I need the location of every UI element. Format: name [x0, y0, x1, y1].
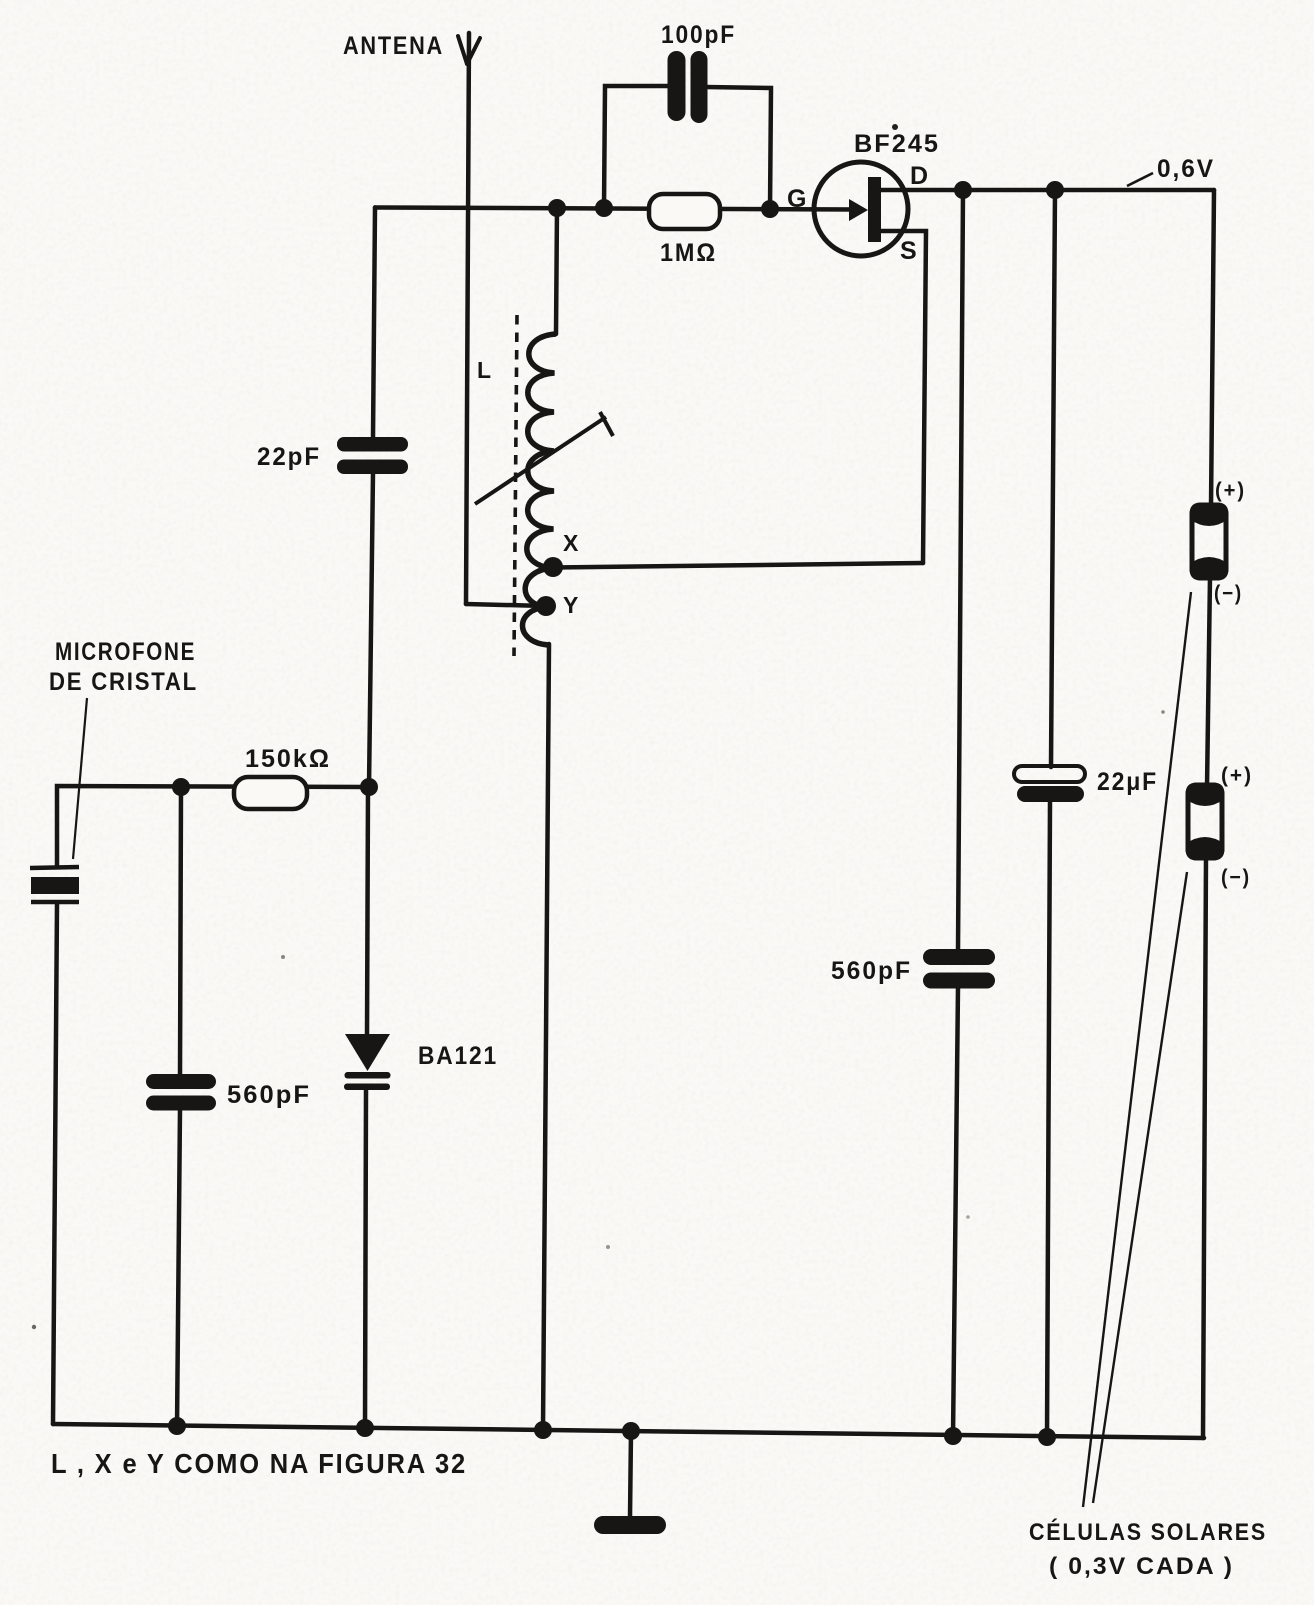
coil L winding [522, 334, 556, 645]
svg-text:DE CRISTAL: DE CRISTAL [49, 668, 198, 696]
svg-text:( 0,3V CADA ): ( 0,3V CADA ) [1049, 1553, 1234, 1580]
svg-text:560pF: 560pF [831, 957, 912, 985]
node: drain bus / 22uF rail [1046, 181, 1064, 199]
svg-text:0,6V: 0,6V [1157, 155, 1215, 183]
diode BA121 (varicap) [345, 1034, 390, 1071]
svg-text:560pF: 560pF [227, 1081, 311, 1109]
resistor 150kΩ [234, 777, 307, 809]
solar cells leader line 1 [1083, 592, 1191, 1507]
svg-text:L , X e Y COMO NA FIGURA 3: L , X e Y COMO NA FIGURA 32 [51, 1448, 467, 1479]
svg-text:L: L [477, 357, 493, 383]
node: gate / 100pF right [761, 200, 779, 218]
wire: antenna vertical [466, 33, 469, 604]
antenna symbol arrowhead [458, 36, 467, 64]
wire: 22uF rail [1051, 190, 1055, 767]
coil core dashed line [514, 315, 517, 656]
wire: source lead and right drop to X [879, 231, 926, 563]
node Y [536, 596, 556, 616]
capacitor 560pF right plates [923, 949, 995, 965]
node: bottom bus / 22uF rail [1038, 1428, 1056, 1446]
solar cell 1 body [1190, 503, 1229, 581]
wire: coil bottom lead [543, 644, 549, 1429]
transistor channel bar [868, 177, 881, 242]
0,6V leader slash [1127, 173, 1153, 186]
svg-text:D: D [910, 162, 930, 190]
node: mic bus / 150k right [360, 778, 378, 796]
wire: Y tap horizontal [466, 604, 546, 606]
node: bottom bus / coil lead [534, 1421, 552, 1439]
svg-text:S: S [900, 237, 919, 265]
node: 100pF left on gate bus [595, 199, 613, 217]
capacitor 22pF plates [337, 437, 408, 452]
variable (trimmer) arrow through coil [475, 417, 606, 504]
mic label leader line [73, 698, 87, 859]
wire: 560pF-left rail [180, 787, 181, 1076]
capacitor 560pF left plates [146, 1074, 216, 1089]
svg-text:MICROFONE: MICROFONE [55, 638, 196, 666]
node: coil tap on gate bus [548, 199, 566, 217]
svg-text:(−): (−) [1221, 866, 1251, 889]
svg-text:(+): (+) [1215, 479, 1246, 502]
svg-text:22pF: 22pF [257, 443, 321, 471]
node: bottom bus / BA121 [356, 1419, 374, 1437]
wire: left branch vertical (22pF / BA121) [373, 208, 375, 439]
wire: 100pF loop [604, 86, 668, 208]
node: bottom bus / 560pF right [944, 1427, 962, 1445]
svg-text:100pF: 100pF [661, 21, 736, 49]
microphone element (crystal mic) [30, 867, 79, 868]
ground symbol [594, 1516, 666, 1534]
svg-text:ANTENA: ANTENA [343, 32, 444, 60]
svg-text:Y: Y [563, 592, 580, 618]
svg-text:1MΩ: 1MΩ [660, 239, 717, 267]
node: mic bus / 560pF left [172, 778, 190, 796]
wire: mic branch [57, 786, 369, 866]
wire: X tap horizontal [553, 563, 923, 568]
svg-text:150kΩ: 150kΩ [245, 745, 331, 773]
wire: bottom bus [53, 1424, 1204, 1438]
svg-text:CÉLULAS SOLARES: CÉLULAS SOLARES [1029, 1518, 1267, 1546]
svg-text:22μF: 22μF [1097, 768, 1158, 796]
wire: 560pF-right rail [958, 190, 963, 951]
wire: drain bus y~190 [879, 188, 1214, 193]
resistor 1MΩ [649, 194, 720, 229]
transistor gate arrow [849, 199, 868, 221]
solar cell 2 body [1186, 783, 1225, 861]
svg-text:(+): (+) [1221, 764, 1253, 787]
capacitor 100pF plates [668, 51, 686, 121]
capacitor 22uF electrolytic plates [1014, 766, 1085, 782]
svg-text:G: G [787, 185, 808, 213]
node: bottom bus / ground stub [622, 1422, 640, 1440]
svg-text:(−): (−) [1214, 582, 1243, 605]
solar cells leader line 2 [1093, 872, 1187, 1503]
transistor Q1 BF245 circle [814, 162, 908, 256]
wire: ground stub [630, 1431, 631, 1517]
wire: main gate bus y~208 [375, 208, 856, 210]
node X [543, 557, 563, 577]
node: drain bus / 560pF rail [954, 181, 972, 199]
svg-text:X: X [563, 530, 580, 556]
wire: coil top lead [556, 208, 557, 334]
scan specks [32, 124, 1165, 1329]
svg-text:BF245: BF245 [854, 130, 940, 158]
node: bottom bus / 560pF left [168, 1417, 186, 1435]
wire: right rail (solar cells) [1211, 190, 1214, 507]
svg-text:BA121: BA121 [418, 1042, 498, 1070]
